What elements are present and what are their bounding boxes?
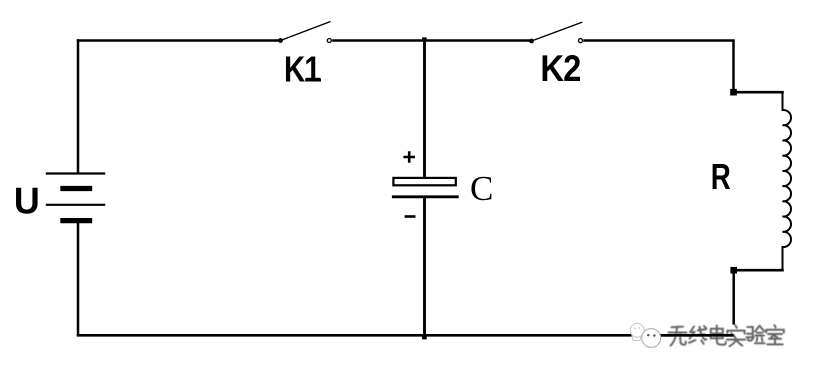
wire left vertical upper (top rail down to battery) (77, 39, 80, 174)
label - (capacitor polarity) (405, 215, 416, 218)
wire R top horizontal (734, 91, 784, 94)
node D (R bottom terminal) (730, 267, 737, 274)
watermark logo icon (630, 323, 660, 347)
wire right vertical lower (732, 270, 735, 336)
label + (capacitor polarity) (403, 151, 415, 163)
svg-text:K2: K2 (540, 48, 581, 89)
wire bottom rail repaint (wire shows through watermark) (662, 334, 734, 337)
wire capacitor branch lower (423, 198, 426, 336)
node B (bottom junction of capacitor branch) (422, 336, 427, 339)
capacitor C (392, 178, 459, 197)
switch K2 (529, 22, 582, 43)
wire top-left segment (battery + to K1) (77, 39, 280, 41)
svg-text:R: R (711, 157, 731, 197)
wire R bottom horizontal (734, 269, 784, 272)
node C (R top terminal) (730, 89, 737, 96)
wire top-middle segment (K1 to K2 via node A) (332, 39, 531, 41)
wire capacitor branch upper (423, 40, 426, 178)
wire right vertical upper (732, 41, 735, 93)
battery U (46, 174, 105, 221)
node A (top junction of capacitor branch) (422, 37, 427, 40)
white emboss occluder over R lower wire (727, 325, 745, 334)
svg-text:K1: K1 (284, 48, 320, 89)
svg-text:U: U (14, 180, 40, 222)
wire left vertical lower (battery - down to bottom rail) (77, 223, 80, 337)
inductor coil R (783, 91, 792, 271)
wire top-right segment (K2 to right branch) (583, 39, 734, 41)
wire bottom rail (77, 334, 734, 337)
svg-text:C: C (470, 169, 493, 208)
switch K1 (278, 22, 331, 43)
